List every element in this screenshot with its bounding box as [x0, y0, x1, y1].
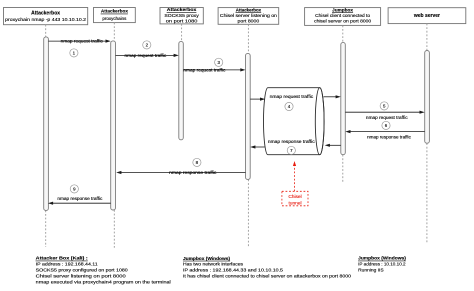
lifeline 3 (upper segment): [181, 24, 183, 42]
svg-text:Attackerbox: Attackerbox: [167, 7, 197, 12]
sequence number circle 7: [287, 146, 295, 154]
svg-text:nmap response traffic: nmap response traffic: [169, 170, 217, 175]
lifeline 5 (lower segment): [342, 155, 344, 183]
svg-text:nmap response traffic: nmap response traffic: [268, 139, 316, 144]
red annotation box: Chisel tunnel: [282, 191, 308, 206]
svg-text:Chisel server listening on por: Chisel server listening on port 8000: [36, 274, 126, 280]
sequence number circle 2: [143, 41, 151, 49]
svg-text:nmap request traffic: nmap request traffic: [270, 94, 314, 99]
message 9: nmap response traffic (bar2 to bar1): [48, 196, 111, 205]
svg-text:nmap request traffic: nmap request traffic: [125, 53, 168, 58]
actor box 3: Attackerbox SOCKS5 proxy: [160, 7, 203, 24]
message 7a: arrow cylinder to bar4 (left bottom): [250, 145, 264, 148]
svg-text:Jumpbox: Jumpbox: [332, 7, 353, 12]
svg-text:Attackerbox: Attackerbox: [236, 7, 262, 12]
sequence number circle 3: [215, 58, 223, 66]
red annotation arrow: chisel tunnel pointer: [293, 161, 296, 191]
lifeline 2 (upper segment): [113, 23, 115, 41]
lifeline 2 (lower segment): [113, 210, 115, 248]
svg-text:on port 1080: on port 1080: [166, 18, 198, 23]
sequence number circle 4: [285, 102, 293, 110]
message 4b: arrow cylinder to bar5 (right top): [324, 95, 341, 98]
sequence number circle 8: [193, 158, 201, 166]
svg-text:nmap request traffic: nmap request traffic: [61, 39, 104, 44]
chisel tunnel cylinder: [264, 88, 325, 155]
message 7b: arrow bar5 to cylinder (right bottom): [325, 144, 341, 147]
svg-text:IP address : 10.10.10.2: IP address : 10.10.10.2: [358, 262, 406, 268]
svg-text:nmap request traffic: nmap request traffic: [366, 115, 409, 120]
svg-text:Attackerbox: Attackerbox: [31, 11, 60, 17]
svg-text:IP address : 192.168.44.33 and: IP address : 192.168.44.33 and 10.10.10.…: [183, 268, 283, 274]
sequence number circle 9: [70, 185, 78, 193]
svg-text:Chisel client connected to: Chisel client connected to: [315, 13, 370, 18]
svg-text:SOCKS5 proxy configured on por: SOCKS5 proxy configured on port 1080: [36, 268, 128, 274]
svg-text:Attacker Box (Kali) :: Attacker Box (Kali) :: [36, 256, 89, 261]
sequence number circle 5: [380, 102, 388, 110]
note block 2: Jumpbox (Windows): [183, 256, 351, 280]
message 1: nmap request traffic (bar1 to bar2): [48, 39, 110, 44]
message 4a: arrow bar4 into cylinder (left top): [250, 98, 265, 101]
actor box 2: Attackerbox proxychains: [94, 8, 136, 23]
lifeline 6 (lower segment): [426, 143, 428, 243]
lifeline 5 (upper segment): [342, 25, 344, 42]
actor box 1: Attackerbox proxychain nmap: [4, 8, 88, 25]
activation bar 2: [111, 41, 116, 210]
svg-text:Jumpbox (Windows): Jumpbox (Windows): [358, 256, 406, 261]
svg-text:Has two network interfaces: Has two network interfaces: [183, 262, 244, 268]
sequence number circle 6: [382, 121, 390, 129]
svg-text:nmap response traffic: nmap response traffic: [57, 196, 103, 201]
lifeline 1 (lower segment): [45, 210, 47, 247]
svg-text:nmap executed via proxychain4: nmap executed via proxychain4 program on…: [36, 280, 171, 286]
message 8: nmap response traffic (bar4 to bar2): [116, 170, 245, 175]
message 5: nmap request traffic (bar5 to bar6): [345, 111, 424, 120]
svg-text:Chisel: Chisel: [288, 194, 301, 200]
svg-text:port 8000: port 8000: [238, 19, 260, 24]
svg-text:proxychain nmap -p 443 10.10.1: proxychain nmap -p 443 10.10.10.2: [5, 17, 86, 22]
message 3: nmap request traffic (bar3 to bar4): [183, 68, 245, 73]
lifeline 4 (lower segment): [247, 180, 249, 248]
activation bar 6: [425, 51, 430, 144]
svg-text:Running IIS: Running IIS: [358, 268, 384, 274]
lifeline 6 (upper segment): [426, 24, 428, 51]
lifeline 1 (upper segment): [45, 25, 47, 37]
svg-text:Attackerbox: Attackerbox: [101, 9, 128, 14]
note block 3: Jumpbox (Windows) web server: [358, 256, 406, 274]
activation bar 3: [179, 41, 184, 139]
svg-text:nmap response traffic: nmap response traffic: [367, 135, 412, 140]
activation bar 1: [44, 37, 49, 211]
message 6: nmap response traffic (bar6 to bar5): [345, 130, 424, 140]
lifeline 4 (upper segment): [247, 24, 249, 53]
activation bar 5: [341, 42, 346, 154]
sequence number circle 1: [70, 49, 78, 57]
svg-text:SOCKS5 proxy: SOCKS5 proxy: [164, 13, 199, 18]
actor box 5: Jumpbox Chisel client: [305, 7, 381, 25]
actor box 4: Attackerbox Chisel server: [218, 7, 279, 24]
svg-text:proxychains: proxychains: [102, 16, 127, 21]
actor box 6: web server: [388, 8, 466, 24]
svg-text:Jumpbox (Windows): Jumpbox (Windows): [183, 256, 231, 261]
svg-text:IP address : 192.168.44.11: IP address : 192.168.44.11: [36, 262, 98, 268]
svg-text:chisel server on port 8000: chisel server on port 8000: [314, 19, 371, 24]
note block 1: Attacker Box (Kali): [36, 256, 171, 286]
message 2: nmap request traffic (bar2 to bar3): [116, 53, 179, 58]
svg-text:Chisel server listening on: Chisel server listening on: [220, 13, 277, 18]
svg-text:tunnel: tunnel: [288, 200, 301, 206]
svg-text:nmap request traffic: nmap request traffic: [183, 68, 226, 73]
activation bar 4: [246, 53, 251, 179]
svg-text:web server: web server: [413, 13, 440, 19]
svg-text:It has chisel client connected: It has chisel client connected to chisel…: [183, 274, 351, 280]
